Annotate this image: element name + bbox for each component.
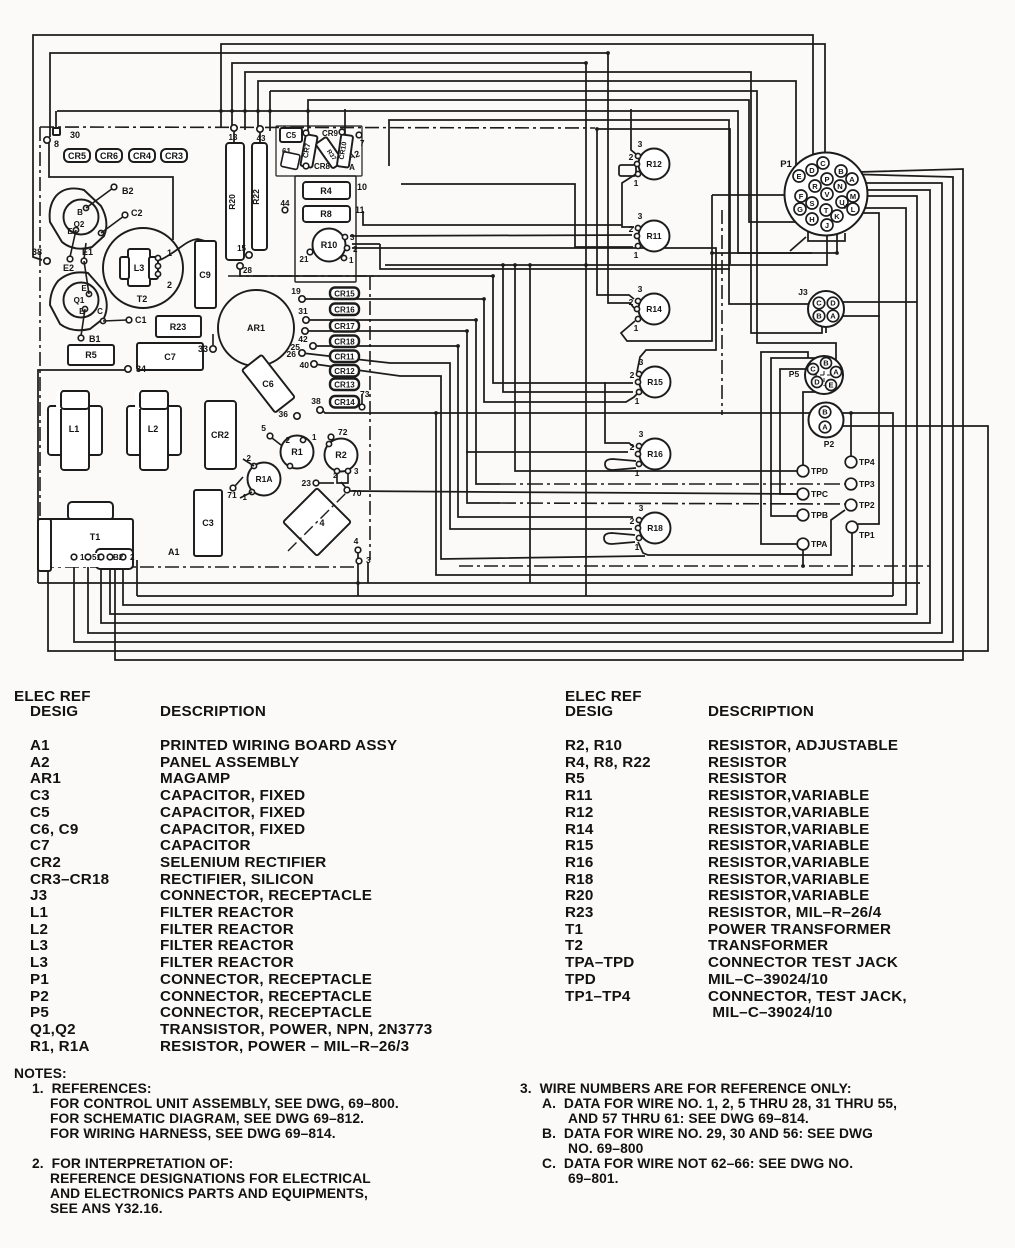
rectifier CR16: [330, 304, 359, 316]
resistor R20: [226, 143, 244, 260]
magamp AR1: [218, 290, 294, 366]
reactor L1: [48, 406, 66, 455]
svg-text:E: E: [81, 284, 87, 293]
svg-text:71: 71: [227, 490, 237, 500]
svg-text:1: 1: [634, 250, 639, 260]
P1 key outline: [808, 232, 845, 241]
svg-text:3: 3: [350, 233, 355, 242]
svg-text:70: 70: [352, 488, 362, 498]
resistor R2: [325, 439, 358, 472]
svg-text:CR17: CR17: [334, 322, 355, 331]
wire P1 wrap3: [88, 183, 942, 633]
wire y248 R10-2: [352, 248, 716, 372]
wire y276 to R15 pin1: [240, 266, 606, 383]
svg-text:2: 2: [353, 245, 358, 254]
capacitor C6: [242, 355, 295, 413]
svg-text:31: 31: [298, 306, 308, 316]
test jack TP1: [846, 521, 858, 533]
svg-text:TP1: TP1: [859, 530, 875, 540]
wire w7: [269, 91, 271, 131]
svg-text:P5: P5: [789, 369, 800, 379]
rectifier CR11: [330, 351, 359, 363]
wire w9 long node30 line: [57, 111, 812, 253]
svg-text:CR15: CR15: [334, 290, 355, 299]
svg-text:CR8: CR8: [314, 162, 331, 171]
box A2 group: [295, 176, 356, 282]
svg-text:3: 3: [354, 467, 359, 476]
resistor R15: [640, 367, 671, 398]
svg-text:B: B: [816, 312, 822, 321]
connector P5: [805, 356, 843, 394]
wire node40 dash line: [314, 364, 645, 559]
wire w1 top loop: [33, 35, 813, 260]
P5 pin E: [826, 380, 837, 391]
svg-text:TPC: TPC: [811, 489, 828, 499]
rectifier CR6: [96, 149, 122, 162]
parts table headers: [14, 688, 91, 705]
capacitor C7: [137, 343, 203, 370]
wire TPA drop: [802, 550, 804, 566]
svg-text:M: M: [850, 192, 856, 201]
connector P2: [809, 403, 844, 438]
wire pin11 line to R11 pin3: [363, 211, 622, 225]
svg-text:R10: R10: [321, 240, 338, 250]
P1 pin N: [834, 180, 846, 192]
svg-text:30: 30: [70, 130, 80, 140]
svg-text:D: D: [809, 166, 815, 175]
node 5: [267, 433, 273, 439]
wire R12 pin1 tab: [619, 165, 636, 176]
svg-text:TP3: TP3: [859, 479, 875, 489]
svg-text:CR3: CR3: [165, 151, 183, 161]
rectifier CR5: [64, 149, 90, 162]
capacitor C5: [280, 128, 302, 142]
P1 pin G: [794, 203, 806, 215]
svg-text:L1: L1: [69, 424, 80, 434]
svg-text:CR16: CR16: [334, 306, 355, 315]
svg-text:R1A: R1A: [255, 474, 272, 484]
svg-text:11: 11: [355, 205, 365, 215]
svg-text:L: L: [851, 205, 856, 214]
svg-text:C6: C6: [262, 379, 274, 389]
svg-text:TP4: TP4: [859, 457, 875, 467]
wire R12 pin1 bracket: [622, 174, 636, 227]
wire TPC riser to P5-C: [780, 369, 807, 494]
node 21: [307, 249, 313, 255]
wire node8 to T2: [49, 143, 173, 240]
node 23: [313, 480, 319, 486]
wire y583: [38, 582, 920, 584]
rectifier CR8: [303, 163, 309, 169]
svg-text:3: 3: [638, 284, 643, 294]
wire P1-A wrap: [115, 169, 963, 660]
node 4: [355, 547, 361, 553]
J3 pin B: [813, 310, 825, 322]
connector P1: [785, 153, 868, 236]
svg-text:B2: B2: [113, 553, 124, 562]
wire R18 pin1 tab: [604, 533, 635, 544]
svg-text:B1: B1: [89, 334, 101, 344]
wire J3-D right: [840, 301, 917, 303]
svg-text:1: 1: [312, 433, 317, 442]
svg-text:R18: R18: [647, 523, 663, 533]
svg-text:L2: L2: [148, 424, 159, 434]
svg-text:2: 2: [630, 442, 635, 452]
resistor R5: [68, 345, 114, 365]
P1 pin E: [793, 170, 805, 182]
svg-text:P: P: [824, 175, 829, 184]
transformer T2: [103, 228, 183, 308]
board outline dash top: [40, 127, 595, 128]
svg-text:A: A: [830, 312, 836, 321]
P1 pin H: [806, 213, 818, 225]
wire w11: [389, 120, 810, 304]
svg-text:TPB: TPB: [811, 510, 828, 520]
resistor R23: [156, 316, 201, 337]
wire y184 loop to R11 pin1: [401, 184, 633, 247]
svg-text:2: 2: [630, 516, 635, 526]
svg-text:21: 21: [300, 255, 309, 264]
notes: [14, 1066, 67, 1081]
svg-text:26: 26: [287, 349, 297, 359]
capacitor C9: [195, 241, 216, 308]
node 3: [356, 558, 362, 564]
wire L3 to C9: [160, 239, 205, 260]
resistor R8: [303, 206, 350, 222]
test jack TP2: [845, 499, 857, 511]
rectifier CR13: [330, 379, 359, 391]
svg-text:3: 3: [639, 357, 644, 367]
P5 pin C: [808, 364, 819, 375]
wire y596 long: [137, 595, 893, 597]
svg-text:8: 8: [54, 139, 59, 149]
svg-text:B: B: [838, 167, 844, 176]
svg-text:3: 3: [639, 503, 644, 513]
svg-text:A: A: [849, 175, 855, 184]
board dash x370: [369, 276, 371, 560]
P1 pin K: [831, 210, 843, 222]
svg-text:R20: R20: [227, 194, 237, 210]
wire TPD left loop: [515, 265, 797, 471]
resistor R18: [640, 513, 671, 544]
svg-text:10: 10: [357, 182, 367, 192]
wire P1-B wrap: [74, 174, 953, 642]
node 44: [282, 207, 288, 213]
wire w8: [308, 100, 798, 222]
svg-text:AR1: AR1: [247, 323, 265, 333]
svg-text:Q1: Q1: [74, 296, 85, 305]
svg-text:T: T: [824, 206, 829, 215]
wire R14 pin3 feed: [597, 129, 634, 299]
svg-text:7: 7: [360, 139, 365, 148]
P1 pin V: [821, 188, 833, 200]
wire 13 stub: [233, 131, 235, 143]
svg-text:2: 2: [130, 553, 135, 562]
svg-text:J: J: [825, 221, 829, 230]
P1 pin R: [809, 180, 821, 192]
svg-text:CR14: CR14: [334, 398, 355, 407]
svg-text:CR5: CR5: [68, 151, 86, 161]
svg-text:36: 36: [279, 409, 289, 419]
rectifier CR14: [330, 396, 359, 408]
board dash y276: [228, 275, 379, 277]
svg-text:28: 28: [243, 266, 252, 275]
svg-text:CR6: CR6: [100, 151, 118, 161]
P1 pin M: [847, 190, 859, 202]
svg-text:C7: C7: [164, 352, 176, 362]
svg-text:C2: C2: [131, 208, 143, 218]
node 72: [328, 434, 334, 440]
P2 pin A: [819, 421, 831, 433]
wire TPB riser to P5-B: [771, 358, 820, 516]
lead E1: [84, 243, 86, 259]
wire w5: [245, 72, 822, 333]
svg-text:L3: L3: [134, 263, 145, 273]
svg-text:E: E: [67, 227, 73, 236]
svg-text:5: 5: [261, 423, 266, 433]
svg-text:D: D: [814, 378, 820, 387]
P5 pin A: [831, 367, 842, 378]
reactor L2: [127, 406, 145, 455]
wire w4: [232, 63, 586, 596]
node 42: [302, 328, 308, 334]
node 31: [303, 317, 309, 323]
node 8: [44, 137, 50, 143]
svg-text:H: H: [809, 215, 814, 224]
svg-text:E: E: [828, 381, 833, 390]
svg-text:2: 2: [629, 224, 634, 234]
wire x503 to R15 pin1: [503, 265, 633, 392]
svg-text:44: 44: [281, 199, 290, 208]
rectifier CR12: [330, 365, 359, 377]
node 15: [246, 252, 252, 258]
svg-text:T1: T1: [90, 532, 101, 542]
node 38: [317, 407, 323, 413]
node 33: [210, 346, 216, 352]
lead C1: [103, 320, 127, 321]
P1 pin A: [846, 173, 858, 185]
svg-text:1: 1: [635, 542, 640, 552]
reactor L3: [128, 249, 150, 286]
svg-text:CR12: CR12: [334, 367, 355, 376]
resistor R1A: [248, 463, 281, 496]
lead E Q1: [84, 261, 89, 294]
wire R14 pin2 feed: [607, 302, 609, 304]
svg-text:C: C: [820, 159, 826, 168]
rectifier CR15: [330, 288, 359, 300]
wire J3 bottom left: [825, 326, 827, 333]
svg-text:1: 1: [635, 396, 640, 406]
svg-text:2: 2: [630, 370, 635, 380]
wire y265 long: [385, 230, 827, 265]
parts table right: [565, 737, 622, 754]
wire node34 drop: [38, 370, 126, 583]
test jack TP3: [845, 478, 857, 490]
T1 pins: [71, 554, 77, 560]
svg-text:R8: R8: [320, 209, 332, 219]
svg-text:A1: A1: [168, 547, 180, 557]
resistor R1: [281, 436, 314, 469]
svg-text:A: A: [349, 163, 355, 172]
rectifier CR18: [330, 336, 359, 348]
svg-text:R4: R4: [320, 186, 332, 196]
P5 pin B: [821, 358, 832, 369]
svg-text:R22: R22: [251, 189, 261, 205]
connector J3: [808, 291, 844, 327]
wire TP4 riser: [850, 413, 852, 456]
wire TPD riser to P5-D: [803, 386, 817, 465]
node 34: [125, 366, 131, 372]
P5 pin D: [812, 377, 823, 388]
svg-text:R5: R5: [85, 350, 97, 360]
wire TP1 line: [436, 413, 852, 575]
wire node26 to TP1 line: [302, 353, 632, 529]
wire P1-K to TP1: [843, 213, 879, 524]
board outline dash bottom: [40, 566, 358, 568]
svg-text:A: A: [822, 423, 828, 432]
rectifier CR7: [300, 134, 317, 168]
test jack TPD: [797, 465, 809, 477]
svg-text:40: 40: [300, 360, 310, 370]
J3 pin D: [827, 297, 839, 309]
P2 pin B: [819, 406, 831, 418]
svg-text:S: S: [809, 199, 814, 208]
svg-text:E1: E1: [82, 247, 93, 257]
P1 pin U: [836, 196, 848, 208]
wire R15-R16 bracket: [605, 383, 634, 447]
node 71: [230, 485, 236, 491]
svg-text:E2: E2: [63, 263, 74, 273]
resistor R12: [639, 149, 670, 180]
P1 pin P: [821, 173, 833, 185]
wire w12 cr9 riser: [631, 109, 637, 155]
svg-text:51: 51: [92, 553, 101, 562]
svg-text:B: B: [823, 359, 829, 368]
svg-text:R23: R23: [170, 322, 187, 332]
node 70: [344, 487, 350, 493]
wire node31 to TP2: [306, 320, 500, 484]
P1 pin F: [795, 190, 807, 202]
svg-text:B: B: [822, 408, 828, 417]
svg-text:P2: P2: [824, 439, 835, 449]
svg-text:C9: C9: [199, 270, 211, 280]
lead C2: [101, 216, 124, 233]
svg-text:3: 3: [366, 555, 371, 565]
svg-text:B: B: [77, 208, 83, 217]
lead B1: [81, 309, 85, 336]
wire P2-A to right bundle: [48, 426, 988, 651]
svg-text:3: 3: [639, 429, 644, 439]
resistor R16: [640, 439, 671, 470]
rectifier CR17: [330, 320, 359, 332]
svg-text:C: C: [97, 307, 103, 316]
svg-text:C3: C3: [202, 518, 214, 528]
transistor Q2: [50, 188, 107, 248]
board dash x722: [721, 210, 723, 415]
node 13: [231, 125, 237, 131]
svg-text:R12: R12: [646, 159, 662, 169]
board outline dash left: [39, 127, 41, 567]
svg-text:R16: R16: [647, 449, 663, 459]
svg-text:C5: C5: [286, 131, 297, 140]
test jack TPB: [797, 509, 809, 521]
node 73: [359, 404, 365, 410]
svg-text:TP2: TP2: [859, 500, 875, 510]
svg-text:2: 2: [629, 297, 634, 307]
svg-text:1: 1: [634, 323, 639, 333]
svg-text:J3: J3: [798, 287, 808, 297]
node 40: [311, 361, 317, 367]
svg-text:1: 1: [167, 248, 172, 258]
svg-text:34: 34: [136, 364, 146, 374]
P1 pin L: [847, 203, 859, 215]
rectifier CR4: [129, 149, 155, 162]
node 28: [237, 263, 243, 269]
svg-text:33: 33: [198, 344, 208, 354]
P1 pin T: [820, 204, 832, 216]
wire J3-A right: [840, 315, 880, 317]
wire node19 to TP3: [302, 299, 637, 402]
P1 pin S: [806, 197, 818, 209]
svg-text:2: 2: [167, 280, 172, 290]
resistor R11: [639, 221, 670, 252]
bracket 4: [283, 488, 351, 556]
wire y129 jog: [597, 129, 730, 264]
svg-text:V: V: [824, 190, 829, 199]
test jack TPC: [797, 488, 809, 500]
wire w2: [221, 44, 825, 176]
svg-text:P1: P1: [780, 159, 792, 170]
svg-text:3: 3: [638, 139, 643, 149]
svg-text:CR9: CR9: [322, 129, 339, 138]
svg-text:B2: B2: [122, 186, 134, 196]
transformer T1: [68, 502, 113, 520]
svg-text:2: 2: [629, 152, 634, 162]
node 26: [299, 350, 305, 356]
wire P1-M wrap: [110, 196, 917, 614]
wire 4-node risers: [357, 552, 359, 596]
wire 43 stub: [259, 132, 261, 143]
svg-text:K: K: [834, 212, 840, 221]
svg-text:Y: Y: [843, 204, 848, 211]
svg-text:1: 1: [349, 256, 354, 265]
resistor R4: [303, 182, 350, 199]
svg-text:CR4: CR4: [133, 151, 151, 161]
P1 pin J: [821, 219, 833, 231]
svg-text:F: F: [799, 192, 804, 201]
rectifier CR2: [205, 401, 236, 469]
wire P1-L wrap: [123, 208, 906, 605]
wire node42 to R18 pin3: [305, 331, 500, 503]
node 38 left: [44, 258, 50, 264]
svg-text:15: 15: [237, 244, 246, 253]
test jack TPA: [797, 538, 809, 550]
svg-text:C: C: [810, 365, 816, 374]
P1 pin B: [835, 165, 847, 177]
svg-text:TPD: TPD: [811, 466, 828, 476]
svg-text:CR2: CR2: [211, 430, 229, 440]
svg-text:38: 38: [32, 247, 42, 257]
P1 pin D: [806, 164, 818, 176]
wire 33 stub: [212, 334, 214, 345]
svg-text:R2: R2: [335, 450, 347, 460]
P1 pin C: [817, 157, 829, 169]
resistor R14: [639, 294, 670, 325]
wire R18 pin1 to TP2 riser: [638, 510, 845, 555]
svg-text:T2: T2: [137, 294, 148, 304]
wire R16 pin1 tab: [605, 459, 636, 470]
transistor Q1: [50, 272, 107, 330]
